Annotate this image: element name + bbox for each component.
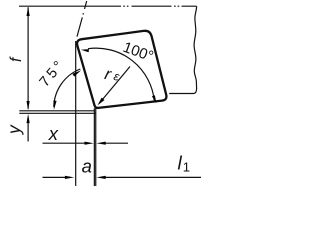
svg-text:y: y (4, 124, 24, 135)
svg-text:1: 1 (183, 160, 190, 175)
svg-text:a: a (82, 156, 92, 177)
svg-text:x: x (48, 123, 59, 144)
